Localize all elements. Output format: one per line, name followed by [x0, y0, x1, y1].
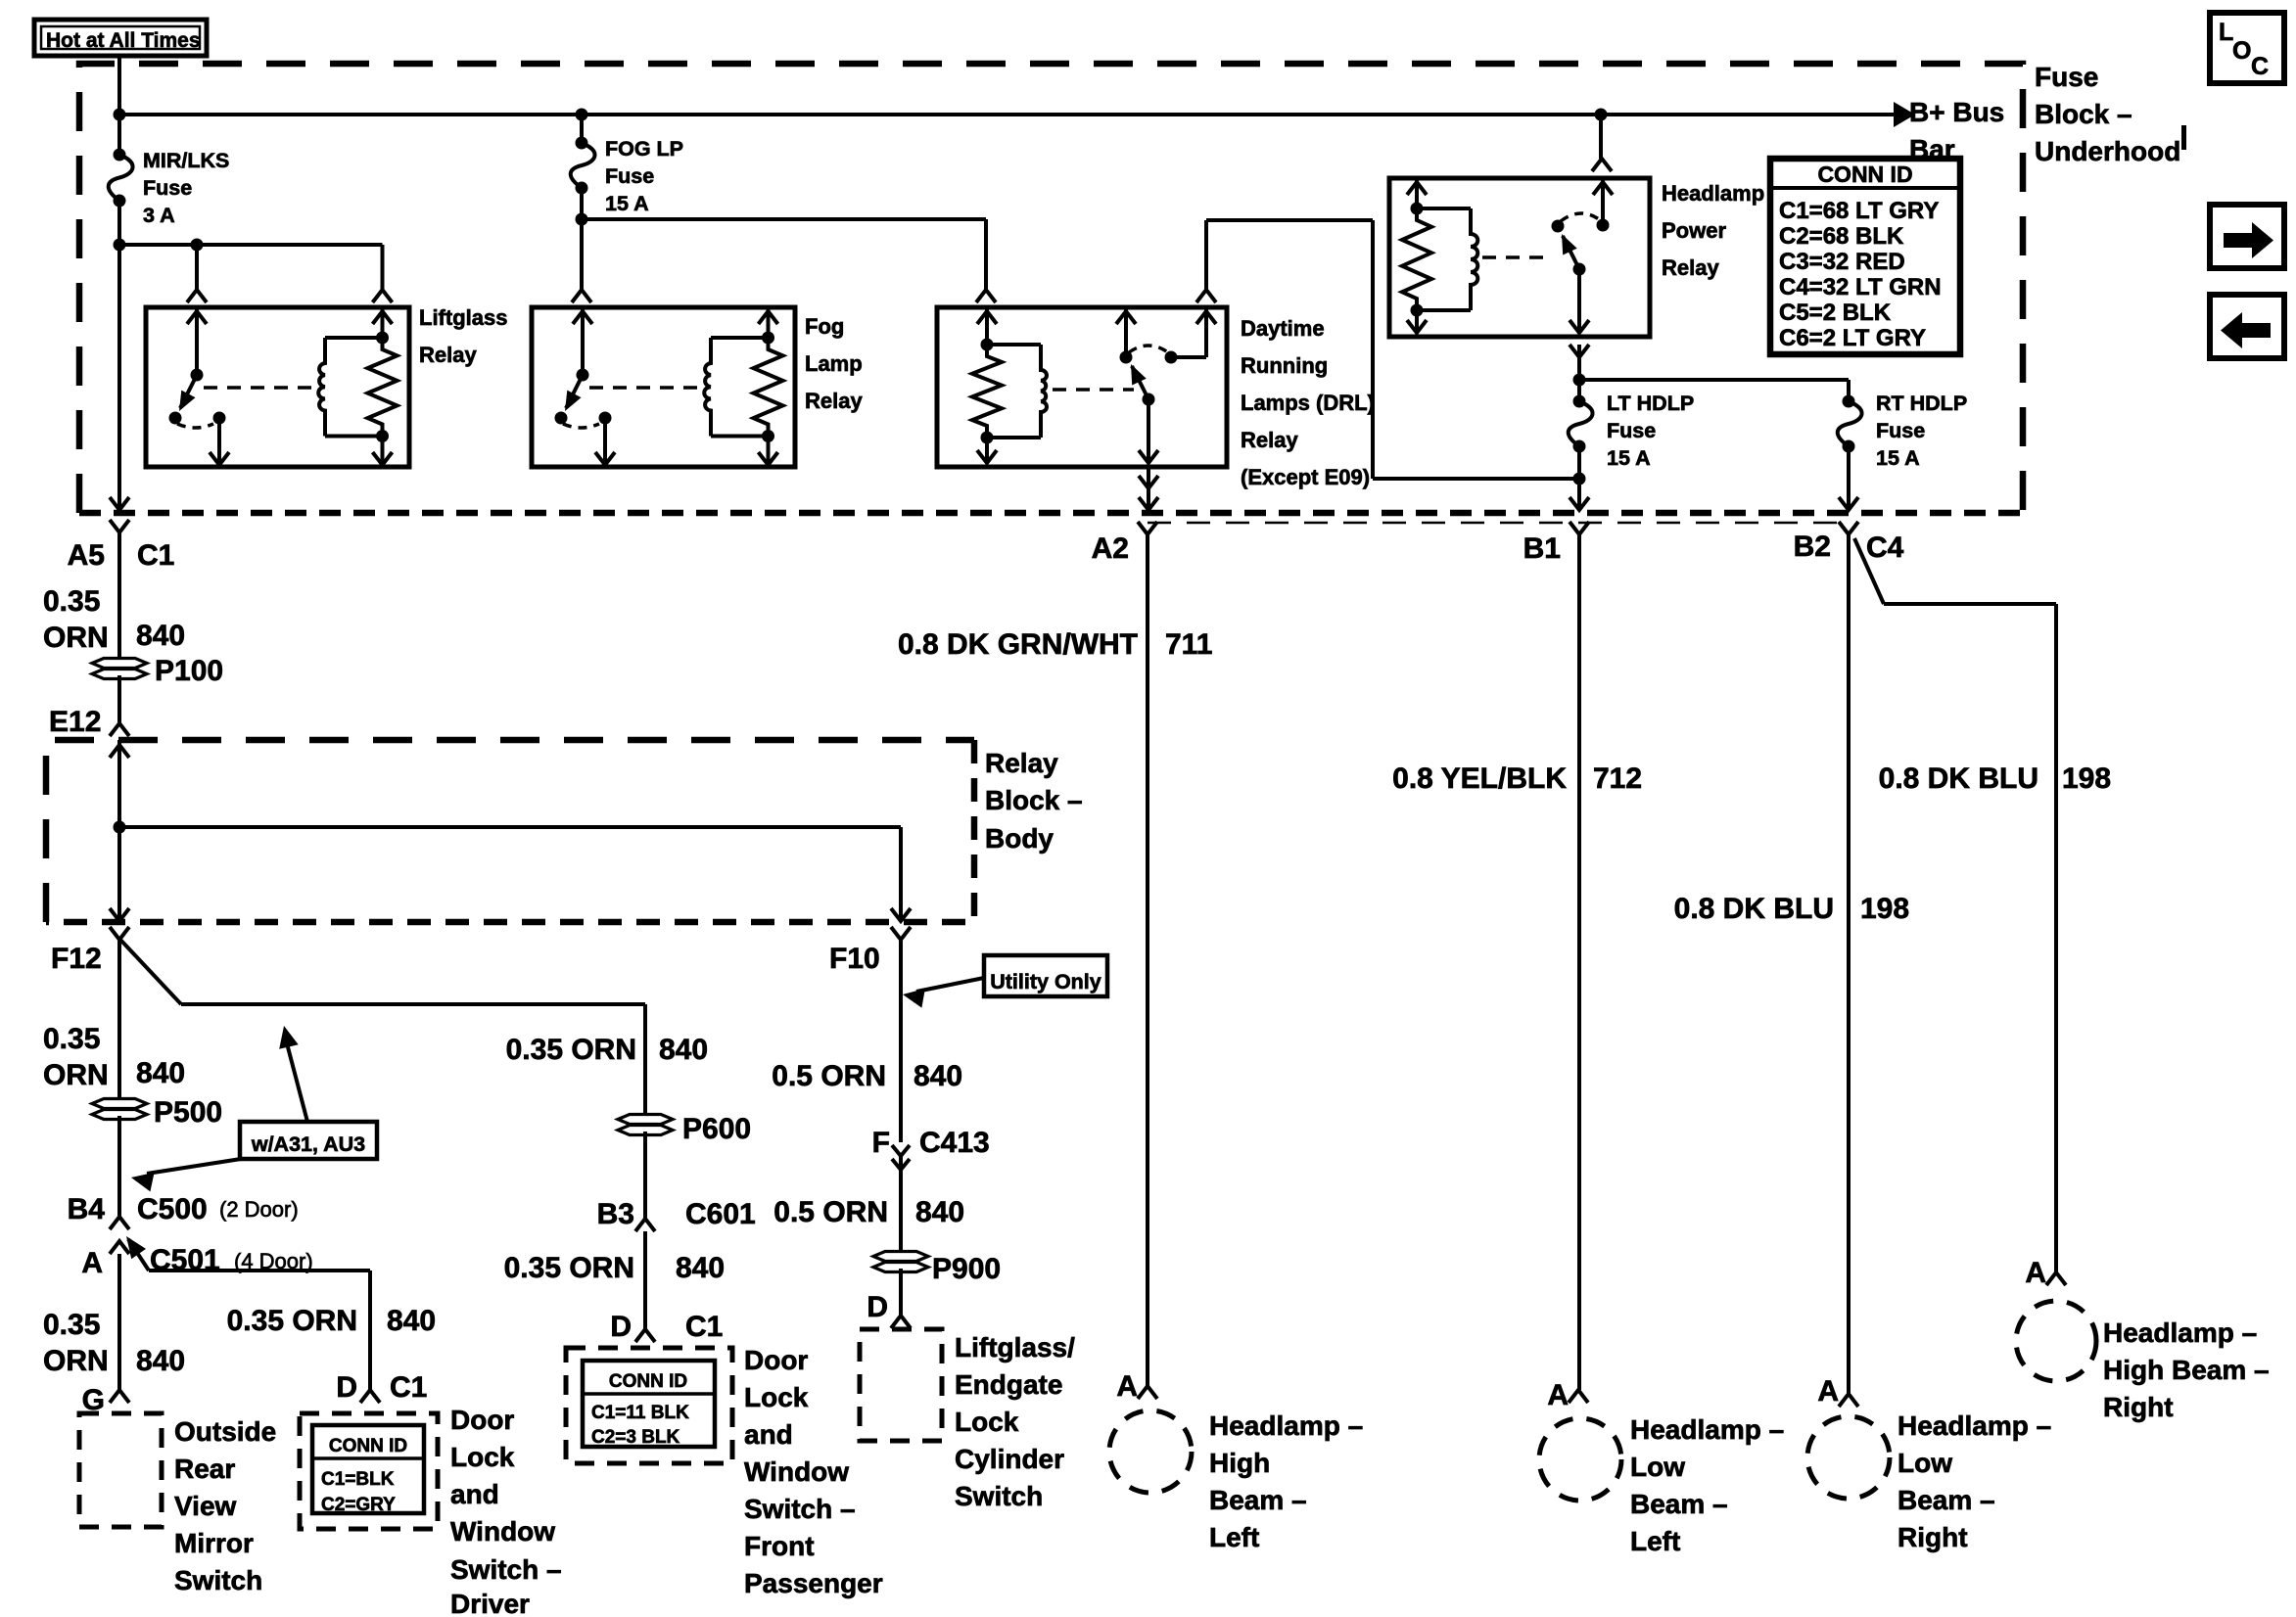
svg-text:C6=2 LT GRY: C6=2 LT GRY — [1779, 325, 1926, 351]
svg-text:C1: C1 — [137, 539, 174, 572]
node: coil bottom — [376, 430, 389, 442]
left arrow nav box — [2210, 295, 2284, 358]
node: bus junction at MIR/LKS fuse — [114, 109, 126, 121]
svg-text:Power: Power — [1662, 218, 1726, 243]
wire: from Hot at All Times into fuse block — [117, 56, 121, 157]
svg-text:C1=11 BLK: C1=11 BLK — [591, 1403, 689, 1423]
coil suppression resistor — [754, 338, 783, 437]
svg-text:0.8 DK BLU: 0.8 DK BLU — [1879, 762, 2038, 795]
svg-text:F12: F12 — [51, 943, 102, 975]
wire: C601 to door lock switch passenger — [643, 1231, 647, 1329]
svg-text:Switch –: Switch – — [744, 1494, 856, 1524]
svg-text:L: L — [2219, 19, 2233, 46]
relay K1 Liftglass Relay — [146, 307, 409, 467]
CONN ID table (passenger switch) — [583, 1361, 715, 1447]
svg-text:Mirror: Mirror — [174, 1528, 254, 1558]
svg-text:Headlamp –: Headlamp – — [2103, 1317, 2257, 1348]
svg-text:15 A: 15 A — [1607, 446, 1651, 470]
svg-text:15 A: 15 A — [605, 192, 649, 215]
svg-text:A5: A5 — [68, 539, 105, 572]
inline connector P900 — [873, 1252, 928, 1262]
lamp: Headlamp High Beam Left (dashed circle) — [1109, 1410, 1192, 1493]
svg-text:A: A — [1116, 1370, 1138, 1403]
svg-text:F: F — [872, 1127, 890, 1159]
svg-text:0.8 DK BLU: 0.8 DK BLU — [1674, 893, 1834, 925]
wire: F10 down to C413 — [899, 940, 903, 1142]
DRL coil suppression resistor — [972, 345, 1002, 438]
Liftglass/Endgate Lock Cylinder Switch dashed box — [860, 1329, 942, 1441]
HPR switch arm — [1563, 236, 1579, 269]
inline connector P500 — [92, 1099, 147, 1109]
svg-text:(2 Door): (2 Door) — [219, 1197, 299, 1222]
arrow: w/A31 callout to branch wire — [287, 1043, 307, 1122]
Door Lock and Window Switch - Front Passenger dashed box — [566, 1348, 732, 1463]
svg-text:E12: E12 — [49, 706, 101, 738]
node: DRL feed joins LT headlamp circuit — [1573, 473, 1586, 485]
wire: E12 to F12 inside relay block — [117, 740, 121, 921]
svg-text:C2=68 BLK: C2=68 BLK — [1779, 223, 1904, 250]
connector at headlamp high beam right — [2046, 1272, 2066, 1285]
svg-text:0.35 ORN: 0.35 ORN — [506, 1034, 636, 1066]
svg-text:0.35 ORN: 0.35 ORN — [227, 1305, 357, 1337]
svg-text:CONN ID: CONN ID — [1817, 162, 1912, 187]
svg-text:F10: F10 — [829, 943, 880, 975]
svg-text:Fuse: Fuse — [605, 164, 654, 188]
svg-text:840: 840 — [915, 1196, 964, 1228]
svg-text:Lock: Lock — [744, 1382, 809, 1412]
svg-text:RT HDLP: RT HDLP — [1876, 392, 1967, 415]
svg-text:and: and — [450, 1479, 499, 1509]
wire: C501 to mirror switch pin G — [117, 1254, 121, 1390]
wire: HPR output to headlamp fuses — [1570, 345, 1589, 357]
wire: DRL NO contact to pin — [1171, 355, 1206, 359]
pin: coil output (unused) — [381, 437, 385, 466]
pin: switch output (unused) — [603, 418, 607, 465]
svg-text:C: C — [2251, 53, 2269, 80]
svg-text:Endgate: Endgate — [955, 1369, 1062, 1400]
pin: switch output (unused) — [217, 418, 221, 465]
svg-text:P600: P600 — [682, 1113, 751, 1145]
svg-text:A: A — [1817, 1375, 1839, 1408]
HPR switch output contact — [1573, 263, 1586, 276]
wire: DRL output exits fuse block (A2) — [1147, 467, 1150, 510]
svg-text:Liftglass/: Liftglass/ — [955, 1332, 1075, 1363]
HPR switch NC contact — [1552, 220, 1565, 233]
switch pivot — [577, 369, 589, 382]
svg-text:840: 840 — [136, 1345, 185, 1377]
wire: P500 to C500 — [117, 1116, 121, 1217]
connector F10 below relay block — [891, 927, 911, 940]
mechanical link (dashed) — [1482, 255, 1548, 259]
svg-text:Block –: Block – — [2035, 99, 2132, 129]
svg-text:Fuse: Fuse — [1876, 419, 1925, 442]
svg-text:ORN: ORN — [43, 1345, 109, 1377]
pin: relay input 1 (switch) — [581, 307, 585, 375]
svg-text:Headlamp –: Headlamp – — [1209, 1410, 1363, 1441]
HPR switch travel dashed arc — [1561, 213, 1599, 221]
svg-text:A2: A2 — [1092, 532, 1129, 565]
svg-text:B1: B1 — [1523, 532, 1561, 565]
wire 840 ORN: A5 to P100 — [117, 532, 121, 662]
mechanical link (dashed) — [1053, 388, 1134, 392]
svg-text:0.35: 0.35 — [43, 1309, 100, 1341]
wire: P600 to B3 — [643, 1132, 647, 1219]
arrow: Utility Only callout — [916, 978, 984, 992]
CONN ID table (driver switch) — [312, 1425, 424, 1513]
connector at headlamp low beam left — [1569, 1390, 1588, 1403]
node: DRL coil top — [981, 339, 994, 351]
svg-text:712: 712 — [1593, 762, 1642, 795]
mechanical link (dashed) — [204, 386, 321, 390]
connector C501 — [110, 1241, 129, 1254]
relay K2 Fog Lamp Relay — [532, 307, 795, 467]
inline connector P100 — [92, 659, 147, 669]
svg-text:P100: P100 — [155, 655, 223, 687]
svg-text:Right: Right — [2103, 1392, 2174, 1422]
svg-text:C4: C4 — [1866, 531, 1904, 564]
svg-text:A: A — [81, 1247, 103, 1279]
wire: branch over to P600 — [181, 1002, 645, 1006]
Fuse Block - Underhood dashed boundary — [79, 64, 2023, 513]
connector at liftglass switch pin D — [891, 1316, 911, 1328]
svg-text:198: 198 — [1860, 893, 1909, 925]
svg-text:B+ Bus: B+ Bus — [1909, 97, 2004, 127]
svg-text:FOG LP: FOG LP — [605, 137, 683, 161]
node: HPR coil bottom — [1411, 304, 1424, 317]
connector at headlamp low beam right — [1839, 1394, 1858, 1407]
power label: Hot at All Times — [34, 20, 207, 56]
svg-text:Underhood: Underhood — [2035, 136, 2180, 166]
svg-text:D: D — [610, 1311, 632, 1343]
svg-text:Lamps (DRL): Lamps (DRL) — [1241, 391, 1375, 415]
connector A5 / C1 below fuse block — [110, 520, 129, 532]
DRL switch output contact — [1143, 393, 1155, 406]
lamp: Headlamp High Beam Right (dashed circle) — [2016, 1301, 2096, 1381]
svg-text:A: A — [2025, 1257, 2046, 1289]
svg-text:(Except E09): (Except E09) — [1241, 465, 1370, 489]
svg-text:Left: Left — [1630, 1526, 1680, 1556]
wire 712 YEL/BLK: B1 to headlamp low beam left — [1577, 534, 1581, 1390]
Relay Block - Body dashed boundary — [46, 740, 974, 922]
svg-text:Fuse: Fuse — [143, 176, 192, 200]
CONN ID table (fuse block) — [1770, 159, 1960, 354]
node: Liftglass Relay pin 1 branch — [191, 239, 204, 252]
svg-text:View: View — [174, 1491, 237, 1521]
lamp: Headlamp Low Beam Left (dashed circle) — [1539, 1418, 1621, 1501]
svg-text:C500: C500 — [137, 1193, 208, 1225]
svg-text:C1=68 LT GRY: C1=68 LT GRY — [1779, 198, 1939, 224]
Outside Rear View Mirror Switch dashed box — [79, 1413, 162, 1527]
connector C500 — [110, 1217, 129, 1229]
svg-text:Lock: Lock — [450, 1442, 515, 1472]
svg-text:P900: P900 — [932, 1253, 1001, 1285]
svg-text:Window: Window — [450, 1516, 555, 1547]
lamp: Headlamp Low Beam Right (dashed circle) — [1807, 1416, 1890, 1499]
connector at mirror switch pin G — [110, 1390, 129, 1403]
svg-text:Relay: Relay — [805, 389, 863, 413]
pin: HPR switch output — [1577, 269, 1581, 333]
wire: RT HDLP fuse output exits fuse block (B2) — [1847, 446, 1851, 510]
pin: DRL coil input — [985, 307, 989, 345]
right arrow nav box — [2210, 205, 2284, 268]
svg-text:840: 840 — [136, 620, 185, 652]
wire: C413 to P900 — [899, 1156, 903, 1255]
fuse F4 RT HDLP 15A — [1843, 395, 1855, 408]
svg-text:Beam –: Beam – — [1630, 1489, 1728, 1519]
svg-text:Door: Door — [744, 1345, 808, 1375]
fuse F3 LT HDLP 15A — [1573, 395, 1586, 408]
switch arm — [180, 375, 197, 408]
node: FOG LP output branch to DRL relay — [576, 213, 588, 226]
svg-text:Block –: Block – — [985, 785, 1083, 815]
svg-text:198: 198 — [2062, 762, 2111, 795]
fuse F2 FOG LP 15A — [576, 137, 588, 150]
svg-text:Running: Running — [1241, 353, 1328, 378]
wire: DRL NO pin up and over to LT headlamp feed — [1204, 220, 1208, 290]
wire: drop to Liftglass Relay pin 1 — [195, 245, 199, 290]
wire: FOG LP to DRL relay coil — [582, 217, 986, 221]
wire: P900 to liftglass switch — [899, 1269, 903, 1316]
svg-text:ORN: ORN — [43, 1059, 109, 1091]
svg-text:w/A31, AU3: w/A31, AU3 — [251, 1132, 365, 1156]
svg-text:ORN: ORN — [43, 622, 109, 654]
LOC reference box — [2210, 13, 2284, 83]
svg-text:711: 711 — [1165, 628, 1212, 661]
svg-text:Relay: Relay — [1662, 255, 1719, 280]
connector B2 / C4 at fuse block — [1839, 522, 1858, 534]
pin: HPR coil output (unused) — [1415, 310, 1419, 333]
svg-text:840: 840 — [387, 1305, 436, 1337]
svg-text:Low: Low — [1630, 1452, 1685, 1482]
switch travel dashed arc — [177, 424, 213, 428]
svg-text:Driver: Driver — [450, 1589, 530, 1617]
svg-text:Liftglass: Liftglass — [419, 305, 507, 330]
switch contact right — [599, 412, 612, 425]
svg-text:Relay: Relay — [985, 748, 1058, 778]
svg-text:Switch: Switch — [955, 1481, 1043, 1511]
switch travel dashed arc — [563, 424, 599, 428]
connector F12 below relay block — [110, 927, 129, 940]
connector A2 at fuse block — [1138, 522, 1157, 534]
pin: HPR coil input — [1415, 178, 1419, 208]
wire: branch to Liftglass Relay pins — [119, 243, 383, 247]
connector B1 at fuse block — [1570, 522, 1589, 534]
svg-text:Door: Door — [450, 1405, 514, 1435]
DRL switch travel dashed arc — [1129, 346, 1168, 352]
wire 711 DK GRN/WHT: A2 to headlamp high beam left — [1146, 534, 1149, 1386]
node: DRL coil bottom — [981, 432, 994, 444]
svg-text:Switch: Switch — [174, 1565, 262, 1595]
arrow: exit fuse block at A5 — [110, 497, 129, 510]
node: headlamp fuse feed junction — [1573, 374, 1586, 387]
svg-text:and: and — [744, 1419, 793, 1450]
svg-text:CONN ID: CONN ID — [329, 1436, 407, 1456]
svg-text:Hot at All Times: Hot at All Times — [46, 29, 201, 52]
svg-text:Beam –: Beam – — [1209, 1485, 1307, 1515]
HPR relay coil — [1417, 207, 1471, 210]
wire: P100 to E12 — [117, 675, 121, 723]
svg-text:Headlamp –: Headlamp – — [1898, 1410, 2051, 1441]
DRL switch NO contact — [1165, 351, 1178, 364]
connector at headlamp high beam left — [1138, 1386, 1157, 1399]
svg-text:Headlamp –: Headlamp – — [1630, 1414, 1784, 1445]
svg-text:840: 840 — [676, 1252, 725, 1284]
pin: DRL switch output — [1147, 399, 1150, 463]
wire: FOG LP fuse output — [580, 188, 584, 290]
switch pivot — [191, 369, 204, 382]
node: bus junction at FOG LP fuse — [576, 109, 588, 121]
svg-text:A: A — [1547, 1379, 1569, 1411]
mechanical link (dashed) — [589, 386, 707, 390]
pin: HPR B+ input — [1601, 178, 1605, 225]
thin dashed connector face line — [1148, 522, 1849, 525]
node: coil bottom — [762, 430, 774, 442]
Door Lock and Window Switch - Driver dashed box — [300, 1413, 438, 1529]
page artifact tick — [2181, 125, 2186, 150]
svg-text:Cylinder: Cylinder — [955, 1444, 1064, 1474]
svg-text:B3: B3 — [597, 1198, 634, 1230]
pin: coil output (unused) — [767, 437, 771, 466]
connector E12 into Relay Block — [110, 723, 129, 736]
svg-text:0.5 ORN: 0.5 ORN — [773, 1196, 888, 1228]
wire: MIR/LKS fuse output down to A5 — [117, 201, 121, 510]
wire: drop to Liftglass Relay pin 2 — [381, 245, 385, 290]
arrow: w/A31 callout to mirror switch wire — [147, 1159, 241, 1174]
svg-text:Left: Left — [1209, 1522, 1259, 1552]
wire: C501 branch to driver door switch — [128, 1239, 149, 1270]
svg-text:O: O — [2232, 37, 2251, 65]
svg-text:Fuse: Fuse — [1607, 419, 1656, 442]
switch contact right — [213, 412, 226, 425]
switch contact left — [169, 412, 182, 425]
relay coil — [325, 336, 383, 340]
node: bus junction at Headlamp Power Relay — [1595, 109, 1608, 121]
svg-text:C4=32 LT GRN: C4=32 LT GRN — [1779, 274, 1942, 300]
svg-text:C3=32 RED: C3=32 RED — [1779, 249, 1905, 275]
svg-text:Body: Body — [985, 823, 1054, 854]
svg-text:0.5 ORN: 0.5 ORN — [772, 1060, 886, 1092]
wire: feed to RT HDLP fuse — [1579, 378, 1849, 382]
svg-text:D: D — [336, 1371, 357, 1404]
connector at driver door switch pin D — [360, 1390, 380, 1403]
svg-text:C2=3 BLK: C2=3 BLK — [591, 1427, 680, 1448]
HPR coil suppression resistor — [1402, 208, 1431, 310]
svg-text:0.8 DK GRN/WHT: 0.8 DK GRN/WHT — [898, 628, 1138, 661]
svg-text:Relay: Relay — [419, 343, 477, 367]
note box: Utility Only — [984, 955, 1107, 996]
svg-text:Relay: Relay — [1241, 428, 1298, 452]
svg-text:P500: P500 — [154, 1096, 222, 1129]
connector C413 pass-through — [892, 1145, 910, 1156]
svg-text:C601: C601 — [685, 1198, 756, 1230]
HPR switch NO contact — [1597, 219, 1610, 232]
svg-text:15 A: 15 A — [1876, 446, 1920, 470]
switch contact left — [555, 412, 568, 425]
pin: relay input 2 (coil) — [381, 307, 385, 338]
svg-text:0.35: 0.35 — [43, 585, 100, 618]
coil suppression resistor — [368, 338, 398, 437]
svg-text:Fuse: Fuse — [2035, 62, 2098, 92]
fuse F1 MIR/LKS 3A — [114, 149, 126, 162]
svg-text:Low: Low — [1898, 1448, 1952, 1478]
svg-text:C5=2 BLK: C5=2 BLK — [1779, 300, 1892, 326]
svg-text:High: High — [1209, 1448, 1270, 1478]
DRL switch arm — [1132, 366, 1148, 399]
svg-text:Beam –: Beam – — [1898, 1485, 1995, 1515]
svg-text:B4: B4 — [68, 1193, 106, 1225]
relay coil — [711, 336, 769, 340]
wire: branch to F10 — [119, 825, 901, 829]
svg-text:MIR/LKS: MIR/LKS — [143, 149, 229, 172]
svg-text:B2: B2 — [1794, 531, 1831, 563]
svg-text:Rear: Rear — [174, 1454, 235, 1484]
inline connector P600 — [618, 1115, 673, 1125]
svg-text:Fog: Fog — [805, 314, 844, 339]
svg-text:C1: C1 — [390, 1371, 427, 1404]
svg-text:C2=GRY: C2=GRY — [321, 1495, 396, 1515]
svg-text:CONN ID: CONN ID — [609, 1371, 687, 1392]
svg-text:Outside: Outside — [174, 1416, 276, 1447]
svg-text:840: 840 — [136, 1057, 185, 1089]
svg-text:Daytime: Daytime — [1241, 316, 1325, 341]
svg-text:Passenger: Passenger — [744, 1568, 883, 1598]
svg-text:Lamp: Lamp — [805, 351, 863, 376]
svg-text:0.35 ORN: 0.35 ORN — [504, 1252, 634, 1284]
wire: B+ bus to HPR input — [1599, 115, 1603, 159]
node: branch to Liftglass Relay — [114, 239, 126, 252]
svg-text:Front: Front — [744, 1531, 815, 1561]
pin: relay input 2 (coil) — [767, 307, 771, 338]
relay K4 Headlamp Power Relay — [1389, 178, 1650, 337]
svg-text:Window: Window — [744, 1456, 849, 1487]
pin: DRL switch common — [1124, 307, 1128, 357]
svg-text:0.8 YEL/BLK: 0.8 YEL/BLK — [1392, 762, 1567, 795]
relay K3 Daytime Running Lamps DRL Relay — [937, 307, 1227, 467]
svg-text:Switch –: Switch – — [450, 1554, 562, 1585]
svg-text:Headlamp: Headlamp — [1662, 181, 1764, 206]
svg-text:C1: C1 — [685, 1311, 723, 1343]
DRL switch pivot — [1120, 351, 1133, 364]
node: branch to F10 — [114, 821, 126, 834]
wire: LT HDLP fuse output exits fuse block (B1) — [1577, 446, 1581, 510]
wire 198 DK BLU: B2 to headlamp low beam right — [1847, 534, 1851, 1394]
wire 198 DK BLU: C4 to headlamp high beam right — [1854, 538, 1884, 604]
DRL relay coil — [987, 343, 1041, 346]
svg-text:High Beam –: High Beam – — [2103, 1355, 2270, 1385]
svg-text:Utility Only: Utility Only — [990, 970, 1101, 993]
B+ bus bar wire — [119, 113, 1894, 116]
note box: w/A31, AU3 — [240, 1122, 377, 1159]
wire: F12 to P500 — [117, 939, 121, 1102]
svg-text:840: 840 — [914, 1060, 962, 1092]
svg-text:3 A: 3 A — [143, 204, 175, 227]
connector at passenger door switch pin D — [635, 1329, 655, 1342]
fuse F2 FOG LP 15A feed — [580, 115, 584, 143]
svg-text:Lock: Lock — [955, 1407, 1019, 1437]
pin: relay input 1 (switch) — [195, 307, 199, 375]
svg-text:D: D — [867, 1291, 888, 1323]
svg-text:C413: C413 — [919, 1127, 990, 1159]
connector C601 — [635, 1219, 655, 1231]
node: HPR coil top — [1411, 203, 1424, 215]
svg-text:Right: Right — [1898, 1522, 1968, 1552]
pin: DRL coil output (unused) — [985, 438, 989, 463]
node: coil top — [762, 332, 774, 345]
node: coil top — [376, 332, 389, 345]
svg-text:0.35: 0.35 — [43, 1023, 100, 1055]
switch arm — [566, 375, 583, 408]
svg-text:840: 840 — [659, 1034, 708, 1066]
